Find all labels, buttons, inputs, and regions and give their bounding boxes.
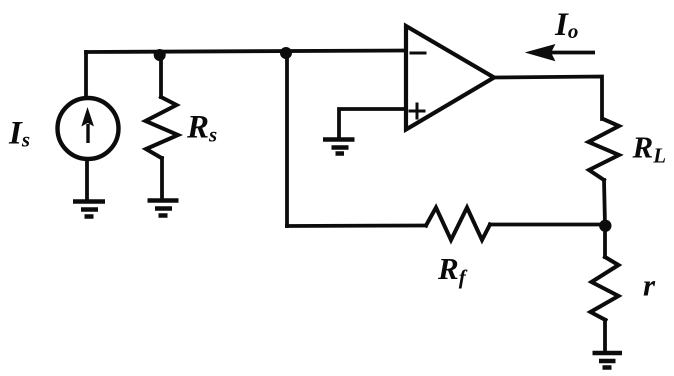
wire source bottom bbox=[85, 159, 89, 201]
wire Rs top bbox=[159, 52, 163, 98]
wire feedback horizontal bbox=[287, 224, 426, 228]
wire Rs bottom bbox=[160, 158, 164, 200]
wire source top bbox=[84, 52, 88, 98]
wire Rf to node bbox=[490, 223, 605, 227]
wire r bottom bbox=[603, 320, 607, 352]
wire plus input to ground bbox=[339, 109, 406, 139]
wire r top bbox=[603, 225, 607, 257]
svg-text:Io: Io bbox=[554, 7, 578, 43]
junction node A bbox=[154, 49, 166, 61]
resistor r bbox=[591, 257, 619, 320]
wire output bbox=[494, 77, 602, 120]
svg-text:Rs: Rs bbox=[186, 110, 217, 147]
wire feedback vertical bbox=[285, 52, 289, 226]
ground under Rs bbox=[148, 201, 179, 216]
Io arrow bbox=[528, 45, 596, 60]
op-amp minus sign bbox=[411, 52, 425, 55]
wire RL bottom bbox=[604, 180, 605, 225]
svg-text:RL: RL bbox=[632, 130, 667, 168]
svg-text:Rf: Rf bbox=[437, 251, 468, 289]
svg-text:Is: Is bbox=[8, 116, 30, 152]
current source Is circle bbox=[58, 98, 119, 159]
resistor Rs bbox=[146, 97, 179, 158]
current source arrow bbox=[81, 107, 94, 143]
resistor RL bbox=[589, 119, 620, 180]
op-amp plus sign bbox=[410, 104, 424, 118]
junction node B bbox=[280, 47, 292, 59]
ground at op-amp plus input bbox=[323, 140, 355, 154]
svg-text:r: r bbox=[643, 268, 656, 303]
op-amp U1 bbox=[406, 26, 494, 130]
wire top rail bbox=[86, 51, 406, 53]
ground under r bbox=[593, 353, 623, 368]
ground under Is bbox=[73, 202, 105, 217]
junction node C bbox=[599, 220, 611, 232]
resistor Rf bbox=[426, 208, 490, 241]
